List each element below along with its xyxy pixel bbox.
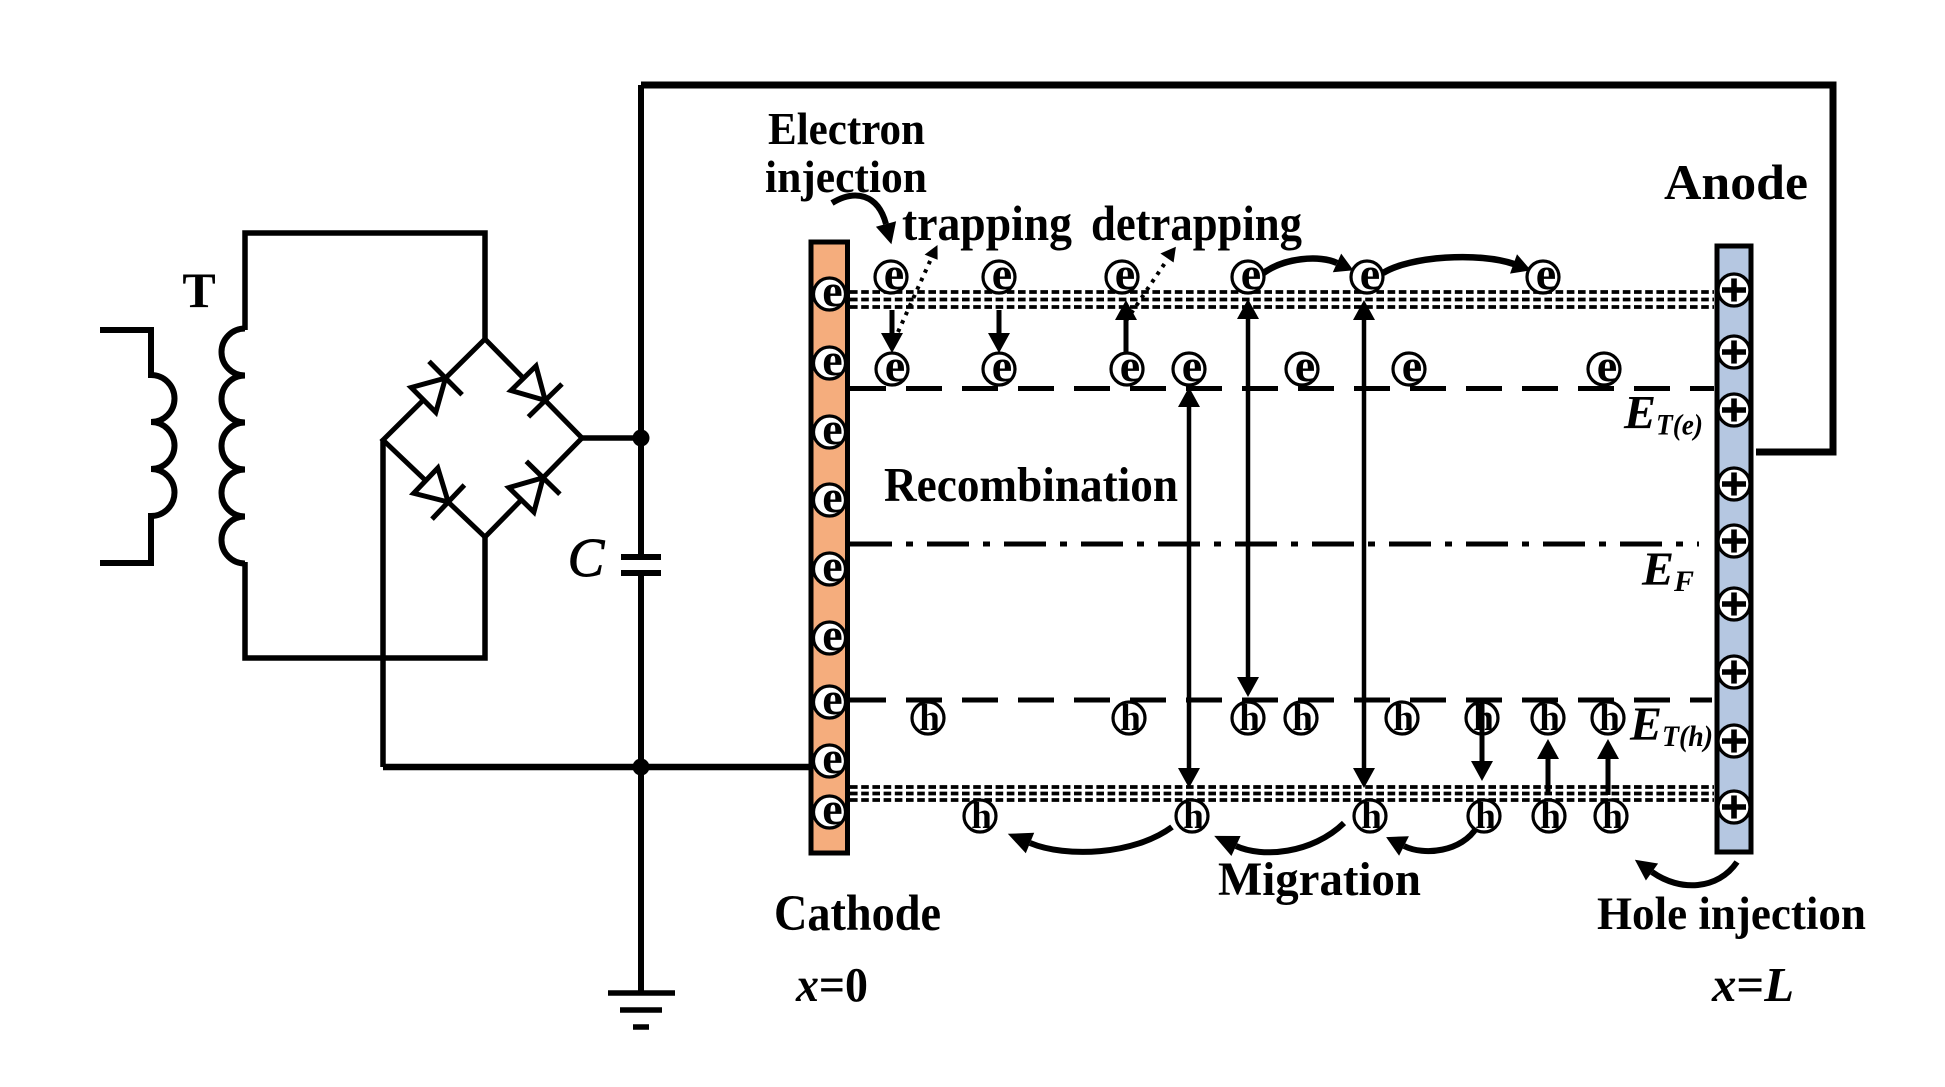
transformer T primary winding — [100, 330, 175, 563]
anode positive charge 9 — [1718, 791, 1750, 823]
svg-text:ET(h): ET(h) — [1629, 698, 1713, 753]
hole detrapping arrow down at x=1482 — [1480, 701, 1485, 763]
cathode electron e2 — [814, 334, 846, 385]
anode positive charge 5 — [1718, 525, 1750, 557]
svg-text:e: e — [822, 265, 842, 316]
anode electrode bar — [1717, 246, 1751, 852]
svg-text:T: T — [182, 262, 215, 318]
anode positive charge 2 — [1718, 336, 1750, 368]
svg-text:e: e — [1597, 340, 1617, 391]
cathode electrode bar — [811, 242, 848, 853]
svg-text:h: h — [1599, 698, 1620, 739]
svg-text:Electron: Electron — [768, 103, 925, 154]
trapped electron 4 — [1173, 340, 1205, 391]
trapped hole 6 — [1466, 698, 1498, 739]
trapped electron 2 — [983, 340, 1015, 391]
svg-text:e: e — [822, 609, 842, 660]
svg-text:h: h — [1602, 796, 1623, 837]
electron injection curved arrow — [832, 196, 886, 224]
transformer T secondary winding — [221, 329, 245, 564]
detrapping arrow (up) — [1124, 317, 1129, 357]
svg-text:e: e — [1115, 248, 1135, 299]
anode positive charge 7 — [1718, 656, 1750, 688]
svg-text:h: h — [1540, 796, 1561, 837]
migration arc 2 — [1236, 823, 1344, 852]
wire capacitor to ground — [638, 573, 644, 991]
electron hopping arc 1 — [1261, 259, 1337, 275]
hole trapping arrow up at x=1548 — [1546, 757, 1551, 795]
free electron in conduction band 5 — [1351, 248, 1383, 299]
hole trapping arrow up at x=1608 — [1606, 757, 1611, 795]
svg-text:EF: EF — [1641, 543, 1694, 598]
svg-text:trapping: trapping — [902, 195, 1072, 251]
trapping arrow 2 (down) — [997, 310, 1002, 336]
trapped hole 5 — [1386, 698, 1418, 739]
diode D2 upper-right — [511, 366, 562, 417]
free electron in conduction band 3 — [1106, 248, 1138, 299]
diode D4 lower-right — [509, 461, 560, 512]
free hole in valence band 6 — [1595, 796, 1627, 837]
ground symbol — [608, 993, 675, 1027]
free electron in conduction band 1 — [875, 248, 907, 299]
trapping arrow 1 (down) — [890, 310, 895, 336]
svg-text:e: e — [884, 248, 904, 299]
hole injection curved arrow — [1652, 862, 1737, 885]
svg-text:Anode: Anode — [1664, 154, 1808, 210]
trapped electron 6 — [1393, 340, 1425, 391]
svg-text:e: e — [1182, 340, 1202, 391]
recombination arrow A (ET(e) to valence band) — [1187, 405, 1192, 772]
svg-text:h: h — [1393, 698, 1414, 739]
svg-text:h: h — [1361, 796, 1382, 837]
svg-text:detrapping: detrapping — [1091, 195, 1302, 251]
svg-text:e: e — [992, 340, 1012, 391]
svg-text:e: e — [992, 248, 1012, 299]
trapped hole 7 — [1532, 698, 1564, 739]
svg-text:h: h — [1183, 796, 1204, 837]
svg-text:e: e — [1536, 248, 1556, 299]
migration arc 1 — [1030, 827, 1172, 852]
svg-text:Migration: Migration — [1218, 853, 1421, 906]
trapped electron 1 — [876, 340, 908, 391]
free hole in valence band 5 — [1533, 796, 1565, 837]
top wire loop to anode — [641, 85, 1833, 452]
electron hopping arc 2 — [1383, 257, 1514, 273]
wire secondary bottom to bridge bottom vertex — [245, 537, 485, 658]
cathode electron e9 — [814, 783, 846, 834]
svg-text:C: C — [568, 527, 606, 588]
svg-text:e: e — [1241, 248, 1261, 299]
svg-text:Hole injection: Hole injection — [1597, 888, 1866, 940]
wire return line to cathode — [383, 764, 809, 771]
svg-text:e: e — [822, 403, 842, 454]
recombination arrow C (conduction band to valence band) — [1362, 316, 1367, 772]
cathode electron e5 — [814, 540, 846, 591]
dotted pointer from detrapping label — [1126, 260, 1167, 321]
svg-text:ET(e): ET(e) — [1623, 387, 1703, 442]
free hole in valence band 4 — [1468, 796, 1500, 837]
svg-text:e: e — [885, 340, 905, 391]
svg-text:x=0: x=0 — [795, 957, 868, 1012]
svg-text:Cathode: Cathode — [774, 886, 941, 942]
cathode electron e4 — [814, 471, 846, 522]
trapped electron 7 — [1588, 340, 1620, 391]
diode D3 lower-left — [414, 468, 465, 519]
cathode electron e3 — [814, 403, 846, 454]
trapped hole 8 — [1592, 698, 1624, 739]
wire secondary top to bridge top vertex — [245, 233, 485, 340]
trapped electron 5 — [1286, 340, 1318, 391]
svg-text:h: h — [1292, 698, 1313, 739]
cathode electron e7 — [814, 673, 846, 724]
dotted pointer from trapping label — [898, 259, 931, 332]
svg-text:h: h — [1475, 796, 1496, 837]
recombination arrow B (conduction band to ET(h)) — [1246, 315, 1251, 681]
cathode electron e6 — [814, 609, 846, 660]
svg-text:h: h — [1239, 698, 1260, 739]
free hole in valence band 1 — [964, 796, 996, 837]
valence band edge (triple dotted line) — [850, 787, 1714, 800]
Fermi level EF dash-dot line — [850, 542, 1699, 547]
free hole in valence band 3 — [1354, 796, 1386, 837]
svg-text:e: e — [822, 540, 842, 591]
svg-text:e: e — [1402, 340, 1422, 391]
trapped hole 4 — [1285, 698, 1317, 739]
svg-text:e: e — [1360, 248, 1380, 299]
svg-text:e: e — [822, 334, 842, 385]
svg-text:x=L: x=L — [1711, 957, 1794, 1012]
svg-text:e: e — [822, 673, 842, 724]
svg-text:e: e — [822, 471, 842, 522]
wire bridge right vertex to main node — [582, 435, 641, 441]
anode positive charge 8 — [1718, 725, 1750, 757]
svg-text:e: e — [1295, 340, 1315, 391]
svg-text:h: h — [919, 698, 940, 739]
svg-text:e: e — [1120, 340, 1140, 391]
electron trap level ET(e) dashed line — [850, 386, 1714, 391]
free electron in conduction band 6 — [1527, 248, 1559, 299]
conduction band edge (triple dotted line) — [850, 292, 1714, 307]
svg-text:h: h — [1120, 698, 1141, 739]
svg-text:e: e — [822, 732, 842, 783]
hole trap level ET(h) dashed line — [850, 698, 1712, 703]
anode positive charge 1 — [1718, 274, 1750, 306]
free electron in conduction band 4 — [1232, 248, 1264, 299]
junction dot at bridge output node — [633, 430, 650, 447]
trapped hole 2 — [1113, 698, 1145, 739]
anode positive charge 4 — [1718, 468, 1750, 500]
svg-text:Recombination: Recombination — [884, 457, 1178, 512]
trapped electron 3 — [1111, 340, 1143, 391]
wire main vertical top section — [638, 85, 644, 557]
trapped hole 1 — [912, 698, 944, 739]
svg-text:e: e — [822, 783, 842, 834]
cathode electron e8 — [814, 732, 846, 783]
junction dot at ground node — [633, 759, 650, 776]
diode D1 upper-left — [411, 361, 462, 412]
svg-text:h: h — [971, 796, 992, 837]
trapped hole 3 — [1232, 698, 1264, 739]
cathode electron e1 — [814, 265, 846, 316]
free electron in conduction band 2 — [983, 248, 1015, 299]
anode positive charge 6 — [1718, 588, 1750, 620]
migration arc 3 — [1404, 827, 1477, 851]
svg-text:h: h — [1539, 698, 1560, 739]
anode positive charge 3 — [1718, 394, 1750, 426]
wire bridge left vertex down to return line — [380, 440, 386, 767]
diode bridge diamond — [383, 339, 582, 537]
free hole in valence band 2 — [1176, 796, 1208, 837]
capacitor C plates — [621, 557, 661, 573]
